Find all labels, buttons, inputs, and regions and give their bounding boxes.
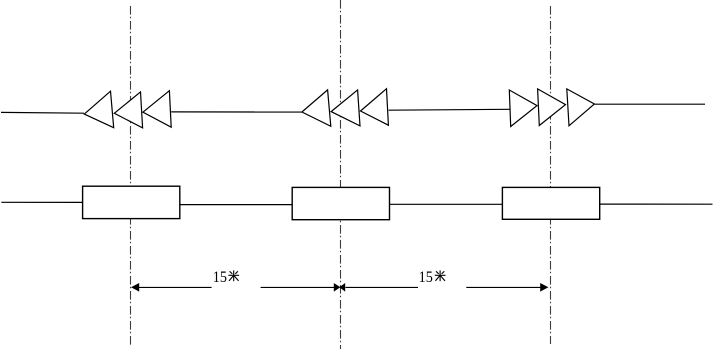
dimension D2 line left part — [346, 286, 419, 288]
dimension D2 line right part — [466, 286, 540, 288]
triangle G2-T3 (left-pointing) — [361, 89, 389, 126]
triangle G2-T2 (left-pointing) — [331, 90, 360, 126]
svg-text:15: 15 — [213, 269, 227, 286]
box B2 (rectangle on bottom run, middle) — [292, 187, 389, 219]
dimension D1 arrowhead right + dimension D2 arrowhead left (bowtie at CL2) — [334, 283, 341, 292]
dimension D2 label 米 glyph (drawn) — [435, 270, 446, 281]
dimension D1 line right part — [261, 286, 336, 288]
triangle G2-T1 (left-pointing) — [302, 90, 331, 126]
svg-text:15: 15 — [419, 269, 433, 286]
dimension D2 arrowhead right (at CL3) — [540, 283, 548, 292]
triangle G3-T2 (right-pointing) — [538, 89, 566, 126]
wire: bottom line segment F (box 1 to box 2) — [180, 204, 292, 206]
dimension D1 line left part — [139, 286, 212, 288]
triangle G3-T1 (right-pointing) — [509, 90, 537, 127]
wire: bottom line segment G (box 2 to box 3) — [390, 203, 503, 205]
triangle G1-T2 (left-pointing) — [114, 92, 142, 128]
box B3 (rectangle on bottom run, right) — [502, 187, 599, 219]
dimension D1 arrowhead left (at CL1) — [131, 283, 139, 292]
centerline CL2 (dash-dot vertical axis, middle) — [340, 0, 342, 349]
triangle G1-T3 (left-pointing) — [143, 91, 171, 128]
wire: top line segment B (group 1 to group 2) — [171, 111, 302, 113]
triangle G1-T1 (left-pointing) — [84, 91, 113, 128]
centerline CL1 (dash-dot vertical axis, left) — [130, 6, 132, 345]
wire: bottom line segment H (box 3 to right edge) — [600, 203, 713, 205]
box B1 (rectangle on bottom run, left) — [83, 186, 180, 218]
dimension D1 label 米 glyph (drawn) — [228, 270, 239, 281]
wire: top line segment C (group 2 to group 3) — [389, 108, 510, 111]
triangle G3-T3 (right-pointing) — [567, 89, 595, 126]
wire: top line segment D (group 3 to right edge) — [594, 103, 705, 105]
wire: top line segment A (left edge to group 1) — [1, 111, 84, 114]
centerline CL3 (dash-dot vertical axis, right) — [550, 6, 552, 344]
wire: bottom line segment E (left edge to box 1) — [1, 201, 82, 203]
